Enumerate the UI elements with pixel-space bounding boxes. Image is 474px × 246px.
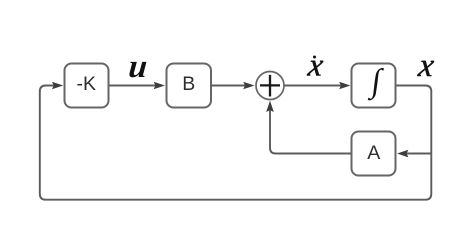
svg-text:x: x [305,47,326,83]
arrowhead into integrator [340,82,350,89]
wire: -K output to B [109,85,157,87]
wire: B output to summing junction [211,85,246,87]
wire: feedback loop from integrator output around bottom to -K input [40,86,432,200]
svg-text:x: x [416,47,437,84]
wire: summing junction to integrator [284,85,341,87]
arrowhead into summing junction [244,82,254,89]
block integrator [352,64,396,108]
arrowhead into -K [53,82,63,89]
wire: A output left then up to summing junction [270,110,352,154]
svg-text:B: B [182,73,195,95]
svg-text:-K: -K [77,73,97,95]
block A [352,132,396,176]
wire: branch from right vertical into A [406,153,431,155]
svg-text:u: u [127,49,148,85]
arrowhead into A (pointing left) [398,150,408,157]
svg-text:A: A [367,142,380,164]
arrowhead into B [154,82,164,89]
block B [167,64,212,108]
summing junction [256,72,284,100]
arrowhead into summing junction bottom (pointing up) [267,102,274,112]
block -K [65,64,109,108]
